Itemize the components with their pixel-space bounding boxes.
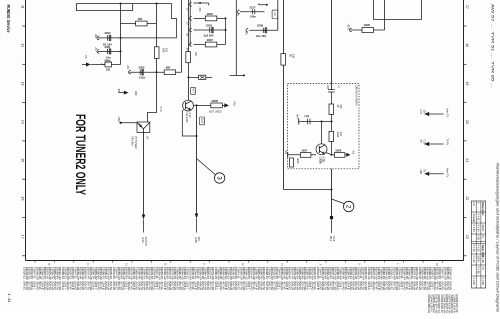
svg-text:0V2 TU: 0V2 TU (445, 305, 448, 314)
signal arrow F15 (224, 103, 229, 107)
svg-text:4600ʹ: 4600ʹ (207, 12, 214, 16)
svg-text:(1n): (1n) (305, 115, 310, 118)
wire L bend x283.2 (284, 189, 332, 191)
svg-text:100n: 100n (250, 15, 256, 19)
wire row C2202b (194, 29, 226, 31)
svg-text:23: 23 (465, 235, 469, 239)
designator label T1415 (131, 136, 137, 149)
svg-text:+B9: +B9 (419, 169, 422, 174)
component box y77 (199, 75, 206, 79)
emitter row wire right (332, 154, 347, 156)
svg-text:17: 17 (465, 5, 469, 9)
wire row R4308b (351, 29, 385, 31)
svg-text:4V7 AF: 4V7 AF (455, 305, 458, 314)
capacitor C2208 22u (263, 28, 267, 33)
pin hook bus 3 (190, 28, 192, 31)
pin hook C2202 (97, 36, 99, 39)
svg-text:+5L: +5L (94, 47, 97, 52)
svg-text:5V0-VH: 5V0-VH (442, 305, 445, 314)
node y77 (188, 76, 190, 78)
transistor T1413 (183, 100, 194, 111)
wire row R4600 (194, 17, 226, 19)
wire to arrow F15 (222, 104, 224, 106)
svg-text:B: B (47, 263, 51, 265)
pin hook bus 4 (190, 43, 192, 46)
pin hook 22u row (246, 29, 248, 32)
wire comb v1 (373, 0, 375, 20)
svg-text:302: 302 (339, 105, 342, 110)
capacitor C2202 row wire (98, 37, 177, 39)
svg-text:P 4-95: P 4-95 (481, 256, 484, 264)
capacitor C2217 (252, 9, 255, 14)
feeder wire x236.3 (235, 0, 237, 75)
svg-text:Rahmenabzweigungen und Schaltp: Rahmenabzweigungen und Schaltpläne / Lay… (496, 163, 500, 312)
svg-text:480ʹ: 480ʹ (166, 66, 171, 70)
svg-text:CR 1415: CR 1415 (131, 136, 134, 146)
resistor R2302 (140, 69, 143, 75)
resistor R480 (164, 70, 175, 75)
svg-text:TV PL: TV PL (446, 139, 449, 147)
svg-text:12: 12 (21, 43, 25, 47)
svg-text:4308ʹ: 4308ʹ (364, 23, 371, 27)
wire base T1415 (121, 122, 138, 124)
wire comb v2 (384, 0, 386, 30)
module bottom small component (290, 158, 294, 167)
svg-text:132a: 132a (139, 76, 145, 80)
component box frame (nested) (172, 4, 177, 38)
node y71 x151.6 (156, 71, 158, 73)
svg-text:22: 22 (465, 197, 469, 201)
arrowhead wire x196.3 (195, 214, 199, 233)
resistor R3003 (vertical) (329, 131, 334, 141)
svg-text:16: 16 (21, 197, 25, 201)
node on top bus (120, 3, 122, 5)
svg-text:AW 57 ... TVR 51 ... TVR 85: AW 57 ... TVR 51 ... TVR 85 ... (491, 4, 496, 88)
node y75.4 (243, 74, 245, 76)
arrowhead wire x142.6 (142, 215, 146, 233)
svg-text:P 4-98: P 4-98 (481, 278, 484, 286)
svg-text:102: 102 (106, 68, 111, 72)
svg-text:4 - 84: 4 - 84 (7, 294, 11, 303)
emitter wire T1413 (182, 110, 196, 136)
capacitor C2321 (108, 49, 111, 54)
node L join (331, 189, 333, 191)
svg-text:NSPD: NSPD (477, 256, 480, 263)
capacitor C2321 row wire (98, 50, 121, 52)
svg-text:11: 11 (21, 5, 25, 9)
signal arrow right 1 (424, 112, 443, 116)
transistor T4 (module) (316, 144, 327, 155)
svg-text:FOR TUNER2 ONLY: FOR TUNER2 ONLY (73, 114, 89, 195)
resistor R3308b (334, 153, 345, 158)
node C2321 (120, 50, 122, 52)
svg-text:2V7-SD: 2V7-SD (435, 305, 438, 314)
svg-text:12V5 I: 12V5 I (430, 305, 433, 313)
resistor R4308b (362, 28, 374, 33)
svg-text:20: 20 (465, 120, 469, 124)
pin labels bus left column (186, 8, 189, 51)
leader line to circled 2 (332, 199, 345, 204)
left margin grid ticks (22, 26, 25, 256)
svg-text:TUN 5V: TUN 5V (144, 237, 148, 246)
svg-text:200: 200 (165, 48, 168, 53)
svg-text:132: 132 (339, 132, 342, 137)
pin hook bus 2 (190, 17, 192, 20)
svg-text:18: 18 (465, 43, 469, 47)
resistor R4300 (205, 42, 217, 47)
svg-text:TU: TU (481, 235, 484, 238)
svg-text:+5RD: +5RD (347, 24, 350, 30)
wire R3015 down (331, 115, 333, 132)
svg-text:2217ʹ: 2217ʹ (250, 6, 257, 10)
node pin bus1 (199, 2, 201, 4)
capacitor squiggle R580 row (101, 64, 105, 65)
svg-text:F15: F15 (232, 102, 236, 107)
pin bus1 stub (208, 3, 210, 6)
right margin grid numbers (465, 5, 469, 239)
svg-text:VT TUNER: VT TUNER (134, 136, 137, 149)
net label +F1A TUN 5V (141, 237, 148, 246)
pin hook C2321 (97, 50, 99, 53)
wire row 22u cap (249, 29, 277, 31)
wire vertical drop to C2202 row (120, 4, 122, 65)
svg-text:2V2 AG: 2V2 AG (450, 305, 453, 314)
wire R3003 down (331, 142, 333, 155)
svg-text:from TV: from TV (446, 109, 449, 118)
collector wire T1413 right (193, 104, 211, 106)
bottom margin grid letters (47, 263, 439, 266)
svg-text:+5M: +5M (284, 150, 286, 155)
base wire down to T4 (321, 122, 323, 145)
wire below test point (331, 219, 333, 233)
resistor R580 (105, 62, 112, 67)
supply bus line 2 (189, 0, 191, 46)
svg-text:13: 13 (21, 82, 25, 86)
svg-text:N4.7: N4.7 (191, 88, 194, 94)
svg-text:21: 21 (465, 158, 469, 162)
svg-text:2302: 2302 (139, 66, 145, 70)
node emitter join (196, 135, 198, 137)
svg-text:12V5-A: 12V5-A (432, 305, 435, 314)
svg-text:IC: IC (481, 214, 484, 217)
resistor R06 on feeder (vertical) (281, 54, 286, 66)
signal arrow F3 into R580 row (82, 62, 91, 66)
signal arrow F69 (119, 89, 129, 95)
svg-text:4005: 4005 (296, 158, 298, 164)
arrow label left 2 (419, 140, 425, 145)
reference table texts (472, 202, 484, 285)
svg-text:A2: A2 (145, 136, 149, 140)
page frame bottom border line (26, 260, 464, 262)
page frame left border line (25, 0, 27, 261)
circled reference 3 (214, 173, 224, 183)
svg-text:2u2 50V: 2u2 50V (204, 34, 214, 38)
svg-text:F: F (202, 263, 206, 265)
svg-text:14: 14 (21, 120, 25, 124)
capacitor C2202 (108, 35, 111, 40)
svg-text:11V4 B: 11V4 B (453, 305, 456, 313)
signal arrow right 2 (424, 142, 443, 146)
svg-text:H: H (280, 263, 284, 265)
svg-text:2.7V: 2.7V (159, 107, 163, 113)
svg-text:12V: 12V (422, 110, 425, 115)
wire vertical x183.3 (181, 0, 183, 72)
wire row R4300 (194, 44, 226, 46)
svg-text:0V8 UH: 0V8 UH (447, 305, 450, 314)
wire junction left (299, 121, 332, 123)
svg-text:Grundpl.: Grundpl. (472, 214, 475, 224)
left margin grid numbers (21, 5, 25, 239)
pin hook R4308b (350, 28, 352, 31)
resistor R4600 (205, 16, 217, 21)
svg-text:5V: 5V (422, 169, 425, 172)
resistor R1007 (300, 153, 311, 158)
svg-text:+5D: +5D (126, 65, 129, 70)
svg-text:P 4-96: P 4-96 (477, 267, 480, 275)
svg-text:300: 300 (198, 8, 201, 13)
resistor R4308 wire (121, 23, 157, 25)
module exit wire (331, 169, 333, 216)
designator label T4 (318, 157, 324, 164)
svg-text:CR 1413: CR 1413 (185, 113, 188, 123)
collector down wire x196.3 (196, 105, 198, 217)
svg-text:P 4-91: P 4-91 (477, 225, 480, 233)
svg-text:R2035-3: R2035-3 (455, 295, 459, 306)
svg-text:TV: TV (481, 267, 484, 270)
node C2202 (120, 37, 122, 39)
svg-text:4-90: 4-90 (477, 235, 480, 241)
arrow label left 3 (419, 169, 425, 174)
capacitor C2202b (210, 27, 214, 33)
svg-text:17: 17 (21, 235, 25, 239)
arrow label left 1 (419, 110, 425, 115)
pin hook R2302 (129, 70, 131, 73)
svg-text:V5ʹ: V5ʹ (419, 140, 422, 144)
pin hook bus 1 (190, 3, 192, 6)
wire row y77 (189, 76, 213, 78)
svg-text:DRIVE AV W873: DRIVE AV W873 (354, 86, 358, 106)
page frame right border line (463, 0, 465, 261)
hook stub top right (259, 3, 268, 6)
wire up to callout A2 (277, 0, 279, 30)
svg-text:L: L (396, 263, 400, 265)
svg-text:1181: 1181 (200, 118, 203, 124)
transistor T1415 (boxed) (137, 122, 150, 132)
svg-text:F73: F73 (419, 110, 422, 115)
svg-text:5V6 SC: 5V6 SC (440, 305, 443, 314)
svg-text:22u 16V: 22u 16V (256, 34, 266, 38)
test point M12 (330, 216, 333, 219)
capacitor C2217 row wire (240, 11, 265, 13)
svg-text:4300ʹ: 4300ʹ (207, 38, 214, 42)
svg-text:108: 108 (292, 54, 295, 59)
svg-text:A 12: A 12 (188, 113, 191, 119)
base tap node (321, 121, 323, 123)
wire top bus lower (77, 4, 133, 11)
svg-text:580a: 580a (105, 58, 111, 62)
svg-text:2202: 2202 (206, 23, 212, 27)
svg-text:CO: CO (472, 202, 475, 206)
svg-text:2321: 2321 (105, 45, 111, 49)
svg-text:19: 19 (465, 82, 469, 86)
X terminal mark (346, 151, 354, 157)
svg-text:F69: F69 (134, 91, 138, 96)
terminal bar emitter row (287, 152, 289, 157)
svg-text:+5RF: +5RF (295, 114, 298, 120)
node module out (331, 154, 333, 156)
capacitor C4009 (308, 119, 311, 125)
dashed module outline (288, 84, 360, 169)
svg-text:RUNDIG Service: RUNDIG Service (6, 5, 11, 33)
node T1413 out (196, 104, 198, 106)
emitter wire T1415 down (143, 132, 145, 217)
net label M12 0-12 (329, 236, 336, 242)
wire comb horizontal (374, 19, 422, 21)
svg-text:P 4-94: P 4-94 (472, 256, 475, 264)
resistor R3308 (211, 103, 223, 108)
capacitor C4012 in module (328, 90, 335, 93)
resistor R940 (vertical) (155, 47, 160, 59)
designator label T1413 (185, 113, 191, 123)
svg-text:E: E (163, 263, 167, 265)
svg-text:(/): (/) (337, 86, 340, 88)
svg-text:33V-AG: 33V-AG (427, 305, 430, 314)
pin hook C2217 (238, 10, 240, 13)
wire cap to R3015 (331, 92, 333, 104)
reference table frame (471, 201, 485, 288)
wire vertical x157 collector feed (148, 4, 157, 123)
supply rail vertical x225.4 (225, 18, 227, 44)
svg-text:0.2V: 0.2V (422, 140, 425, 145)
signal arrow right 3 (424, 172, 443, 176)
node rail C row (225, 29, 227, 31)
leader line to circled 3 (197, 159, 216, 175)
supply bus line 1 (188, 0, 190, 101)
bottom margin grid ticks (35, 261, 442, 263)
emitter row wire left (288, 154, 316, 156)
svg-text:5V0-VH: 5V0-VH (448, 281, 452, 290)
svg-text:3308ʹ: 3308ʹ (212, 99, 219, 103)
svg-text:1007: 1007 (301, 149, 307, 153)
wire R580 row (91, 64, 121, 66)
pin bus1 wire (194, 2, 209, 4)
svg-text:408ʹ: 408ʹ (138, 17, 143, 21)
svg-text:+5A: +5A (94, 33, 97, 38)
svg-text:from TV: from TV (446, 168, 449, 177)
svg-text:3003: 3003 (336, 132, 339, 138)
svg-text:15: 15 (21, 158, 25, 162)
svg-text:2202: 2202 (105, 31, 111, 35)
pin hook base T1415 (120, 122, 122, 124)
wire row y71 (130, 71, 182, 73)
wire comb v3 (421, 0, 423, 20)
svg-text:NOT USED: NOT USED (209, 111, 222, 114)
resistor R3015 (vertical) (329, 104, 334, 115)
terminal bar left (298, 119, 300, 125)
svg-text:297: 297 (194, 52, 198, 57)
wire top bus upper (77, 3, 172, 5)
svg-text:P 4-99: P 4-99 (472, 278, 475, 286)
module bottom text (319, 159, 324, 165)
svg-text:3008: 3008 (319, 159, 321, 165)
component mark y77 (200, 76, 204, 79)
svg-text:30V-TU: 30V-TU (437, 305, 440, 314)
collector stub to node (326, 153, 332, 155)
node module junction (331, 121, 333, 123)
node rail R4600 (225, 17, 227, 19)
svg-text:33V: 33V (197, 237, 201, 242)
svg-text:400: 400 (326, 85, 329, 90)
svg-text:C2060+12: C2060+12 (448, 267, 452, 280)
circled reference 2 (344, 201, 354, 211)
resistor R4308 (136, 21, 148, 26)
right margin grid ticks (464, 26, 467, 256)
svg-text:P 4-93: P 4-93 (472, 225, 475, 233)
node top bus right (156, 3, 158, 5)
svg-text:P 4-53: P 4-53 (472, 245, 475, 253)
svg-text:A2: A2 (273, 12, 277, 16)
callout box 1181 (200, 117, 205, 125)
svg-text:3308: 3308 (335, 149, 341, 153)
svg-text:+5A2: +5A2 (117, 116, 120, 122)
svg-text:P 4-52: P 4-52 (477, 245, 480, 253)
net label +F2B 33V (194, 237, 201, 244)
long feeder wire x283.2 (283, 0, 285, 190)
svg-text:NSPD: NSPD (481, 225, 484, 232)
svg-text:2208: 2208 (257, 24, 263, 28)
wire bend at y75.4 (230, 74, 244, 76)
svg-text:0-12: 0-12 (332, 236, 336, 242)
svg-text:P 4-92: P 4-92 (477, 214, 480, 222)
resistor R297 on bus (vertical) (186, 52, 191, 63)
callout box A2 (272, 10, 278, 18)
callout box N4.7 (191, 87, 196, 94)
bottom connector pin label band (23, 267, 453, 291)
auxiliary pin label band lower right (427, 295, 459, 314)
long feeder wire x331.3 (331, 0, 333, 90)
